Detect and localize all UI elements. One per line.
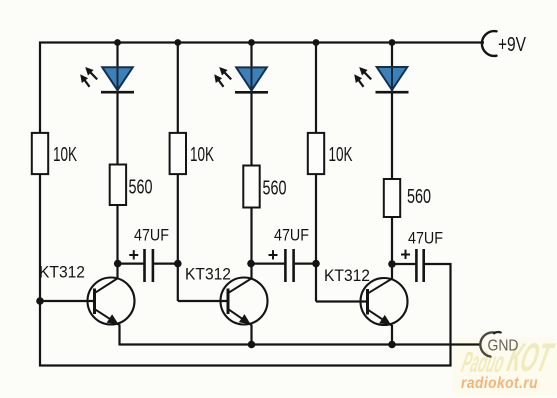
LED VD3 emission arrows bbox=[354, 67, 371, 87]
svg-text:KT312: KT312 bbox=[39, 264, 85, 282]
wire cap C1 right lead bbox=[154, 263, 178, 265]
junction node top rail / LED3 bbox=[389, 39, 396, 46]
wire 10K2 column bbox=[177, 43, 179, 302]
junction node base3/cap2 bbox=[312, 260, 320, 268]
LED VD2 emission arrows bbox=[214, 67, 231, 87]
wire VT2 base bbox=[178, 300, 227, 302]
wire VT1 emitter down bbox=[118, 325, 120, 346]
wire top rail bbox=[39, 41, 484, 43]
wire feedback bottom rail bbox=[39, 364, 452, 366]
wire feedback vertical bbox=[449, 264, 451, 367]
svg-text:10K: 10K bbox=[53, 144, 77, 166]
watermark РадиоКот bbox=[458, 335, 557, 380]
wire cap C2 left lead bbox=[251, 263, 284, 265]
LED VD1 emission arrows bbox=[80, 67, 97, 87]
transistor VT3 KT312 bbox=[361, 278, 408, 326]
wire LED3 column upper bbox=[391, 43, 393, 279]
svg-text:+9V: +9V bbox=[498, 34, 527, 56]
LED VD2 bbox=[235, 67, 268, 92]
wire cap C3 right lead bbox=[425, 263, 452, 265]
wire LED1 column (collector column 1) bbox=[116, 43, 118, 279]
wire VT1 base bbox=[40, 300, 93, 302]
svg-text:10K: 10K bbox=[190, 144, 214, 166]
svg-text:560: 560 bbox=[407, 186, 431, 208]
svg-text:47UF: 47UF bbox=[134, 226, 169, 245]
transistor VT1 KT312 bbox=[88, 278, 135, 326]
wire VT3 base bbox=[316, 300, 366, 302]
resistor R4 560 (column 1) bbox=[110, 165, 126, 206]
resistor R5 560 (column 2) bbox=[243, 166, 259, 208]
svg-text:+: + bbox=[268, 245, 279, 265]
wire cap C1 left lead bbox=[118, 263, 144, 265]
capacitor C2 47UF plates bbox=[284, 249, 287, 282]
junction node collector1/cap1 bbox=[114, 260, 122, 268]
svg-text:KT312: KT312 bbox=[324, 267, 370, 285]
capacitor C3 47UF plates bbox=[415, 249, 418, 282]
svg-text:GND: GND bbox=[488, 338, 519, 355]
svg-text:radiokot.ru: radiokot.ru bbox=[461, 375, 538, 392]
terminal GND bbox=[480, 332, 494, 356]
junction node top rail / 10K3 bbox=[313, 39, 320, 46]
junction node emitter3 / ground rail bbox=[388, 341, 396, 349]
resistor R1 10K (left) bbox=[32, 133, 48, 174]
junction node top rail / LED2 bbox=[248, 39, 255, 46]
svg-text:47UF: 47UF bbox=[274, 226, 309, 245]
svg-text:10K: 10K bbox=[329, 144, 353, 166]
LED VD3 bbox=[376, 67, 409, 92]
svg-text:+: + bbox=[129, 245, 140, 265]
capacitor C1 47UF plates bbox=[143, 249, 146, 282]
wire VT3 emitter down bbox=[391, 325, 393, 345]
wire VT2 emitter down bbox=[250, 325, 252, 345]
svg-text:560: 560 bbox=[263, 178, 287, 200]
transistor VT2 KT312 bbox=[221, 278, 268, 326]
wire LED2 column upper bbox=[250, 43, 252, 279]
junction node top rail / LED1 bbox=[114, 39, 121, 46]
svg-text:47UF: 47UF bbox=[408, 229, 443, 248]
resistor R6 560 (column 3) bbox=[384, 179, 400, 217]
junction node base1 on left rail bbox=[36, 297, 44, 305]
wire cap C3 left lead bbox=[392, 263, 415, 265]
LED VD1 bbox=[101, 67, 134, 92]
wire cap C2 right lead bbox=[295, 263, 316, 265]
resistor R2 10K (column 2) bbox=[170, 133, 186, 174]
svg-text:KT312: KT312 bbox=[185, 266, 231, 284]
junction node collector3/cap3 bbox=[388, 260, 396, 268]
junction node emitter2 / ground rail bbox=[248, 341, 256, 349]
junction node base2/cap1 bbox=[174, 260, 182, 268]
junction node top rail / 10K2 bbox=[174, 39, 181, 46]
wire 10K3 column bbox=[315, 43, 317, 302]
watermark background tint bbox=[453, 337, 557, 396]
svg-text:560: 560 bbox=[129, 177, 153, 199]
junction node collector2/cap2 bbox=[247, 260, 255, 268]
wire emitter ground rail bbox=[120, 343, 482, 345]
svg-text:+: + bbox=[400, 245, 411, 265]
resistor R3 10K (column 3) bbox=[308, 133, 324, 174]
terminal +9V bbox=[482, 31, 497, 56]
wire left rail bbox=[39, 42, 41, 367]
